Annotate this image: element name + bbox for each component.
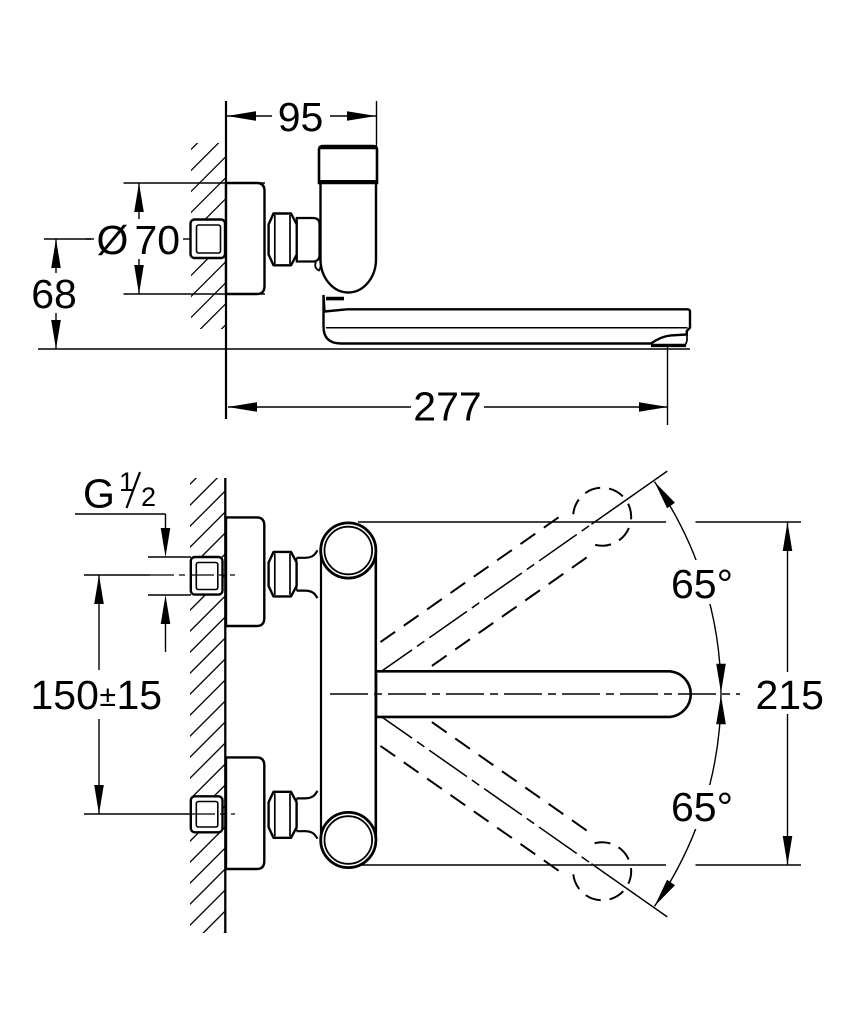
svg-text:68: 68 bbox=[31, 271, 77, 317]
svg-text:95: 95 bbox=[278, 94, 324, 140]
svg-text:277: 277 bbox=[413, 384, 481, 430]
svg-text:G: G bbox=[83, 471, 115, 517]
svg-text:±: ± bbox=[100, 680, 116, 713]
svg-text:70: 70 bbox=[135, 217, 181, 263]
svg-text:15: 15 bbox=[117, 672, 163, 718]
svg-text:Ø: Ø bbox=[97, 217, 129, 263]
svg-text:2: 2 bbox=[141, 482, 156, 512]
svg-text:65°: 65° bbox=[671, 784, 733, 830]
svg-text:150: 150 bbox=[31, 672, 99, 718]
svg-text:65°: 65° bbox=[671, 561, 733, 607]
svg-text:215: 215 bbox=[756, 672, 824, 718]
